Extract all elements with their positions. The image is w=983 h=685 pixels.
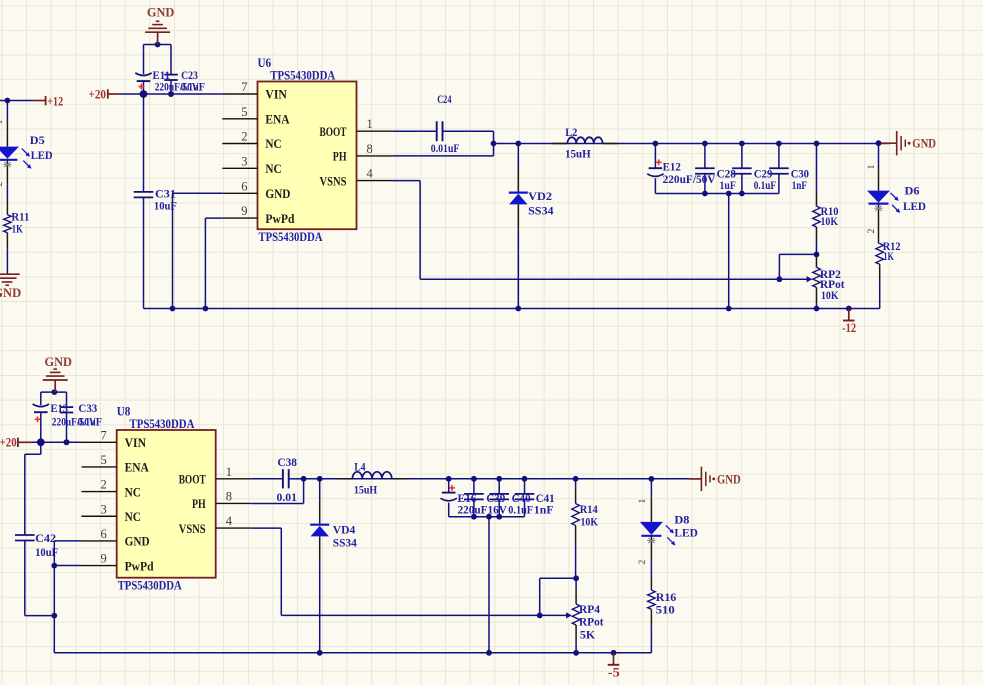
svg-text:LED: LED: [674, 525, 698, 539]
svg-text:PwPd: PwPd: [265, 212, 294, 226]
svg-text:VD2: VD2: [528, 189, 552, 203]
svg-text:7: 7: [241, 80, 247, 94]
svg-text:1nF: 1nF: [534, 502, 554, 516]
svg-text:5: 5: [241, 105, 247, 119]
svg-text:8: 8: [226, 489, 232, 503]
svg-text:D6: D6: [905, 184, 920, 198]
svg-text:PwPd: PwPd: [125, 559, 154, 573]
svg-text:+20: +20: [89, 87, 107, 101]
svg-text:6: 6: [100, 527, 106, 541]
svg-text:10uF: 10uF: [154, 198, 177, 212]
svg-text:0.01uF: 0.01uF: [431, 141, 460, 155]
svg-text:1uF: 1uF: [720, 178, 736, 192]
svg-text:NC: NC: [125, 510, 141, 524]
svg-text:0.1uF: 0.1uF: [181, 79, 206, 93]
svg-text:0.01: 0.01: [277, 490, 297, 504]
svg-text:15uH: 15uH: [565, 146, 591, 160]
svg-text:E13: E13: [51, 401, 69, 415]
svg-text:2: 2: [241, 130, 247, 144]
svg-text:BOOT: BOOT: [179, 473, 206, 487]
svg-text:9: 9: [241, 204, 247, 218]
svg-text:GND: GND: [44, 354, 72, 369]
svg-text:10K: 10K: [821, 288, 839, 302]
svg-text:VIN: VIN: [265, 88, 286, 102]
svg-text:TPS5430DDA: TPS5430DDA: [118, 579, 182, 593]
svg-text:PH: PH: [333, 150, 347, 164]
svg-text:LED: LED: [903, 199, 926, 213]
svg-text:1K: 1K: [12, 222, 23, 236]
svg-text:U6: U6: [258, 56, 272, 70]
svg-text:6: 6: [241, 179, 247, 193]
svg-text:1: 1: [226, 465, 232, 479]
svg-text:BOOT: BOOT: [320, 125, 347, 139]
svg-text:VSNS: VSNS: [179, 522, 206, 536]
svg-text:GND: GND: [125, 535, 150, 549]
svg-text:LED: LED: [31, 148, 53, 162]
svg-text:L2: L2: [565, 125, 577, 139]
svg-text:9: 9: [100, 552, 106, 566]
svg-text:1: 1: [866, 164, 877, 169]
svg-text:2: 2: [0, 181, 5, 186]
svg-text:1nF: 1nF: [792, 178, 807, 192]
svg-text:NC: NC: [265, 162, 281, 176]
svg-text:0.1uF: 0.1uF: [754, 178, 776, 192]
svg-text:1: 1: [367, 117, 373, 131]
svg-text:+12: +12: [47, 94, 63, 108]
svg-text:D8: D8: [674, 512, 689, 526]
svg-text:-5: -5: [608, 665, 620, 679]
svg-text:NC: NC: [125, 485, 141, 499]
svg-text:10K: 10K: [821, 214, 839, 228]
svg-text:3: 3: [241, 154, 247, 168]
svg-text:3: 3: [100, 502, 106, 516]
svg-text:C24: C24: [437, 92, 451, 106]
svg-text:ENA: ENA: [125, 461, 149, 475]
svg-text:1K: 1K: [883, 249, 894, 263]
svg-text:VD4: VD4: [333, 522, 356, 536]
svg-text:7: 7: [100, 428, 106, 442]
svg-text:U8: U8: [117, 405, 131, 419]
svg-text:NC: NC: [265, 137, 281, 151]
svg-text:GND: GND: [265, 187, 290, 201]
svg-text:C38: C38: [277, 455, 297, 469]
svg-text:D5: D5: [30, 133, 45, 147]
svg-text:SS34: SS34: [333, 536, 357, 550]
svg-text:TPS5430DDA: TPS5430DDA: [270, 69, 335, 83]
svg-text:510: 510: [656, 603, 675, 617]
svg-text:GND: GND: [912, 136, 936, 151]
svg-text:C33: C33: [78, 401, 97, 415]
svg-text:0.1uF: 0.1uF: [508, 502, 533, 516]
svg-text:4: 4: [226, 514, 233, 528]
svg-text:220uF16V: 220uF16V: [458, 502, 508, 516]
svg-text:1: 1: [637, 498, 648, 503]
svg-text:220uF/50V: 220uF/50V: [663, 172, 716, 186]
svg-text:1: 1: [0, 119, 5, 124]
svg-text:0.1uF: 0.1uF: [78, 414, 103, 428]
svg-text:2: 2: [100, 478, 106, 492]
svg-text:PH: PH: [192, 497, 206, 511]
svg-text:C42: C42: [35, 531, 56, 545]
svg-text:5K: 5K: [580, 628, 596, 642]
svg-text:4: 4: [367, 167, 374, 181]
svg-text:2: 2: [866, 228, 877, 233]
svg-text:+20: +20: [0, 436, 17, 450]
svg-text:VSNS: VSNS: [320, 174, 347, 188]
svg-text:VIN: VIN: [125, 436, 146, 450]
svg-text:15uH: 15uH: [354, 482, 378, 496]
svg-text:-12: -12: [842, 321, 856, 335]
svg-text:10K: 10K: [581, 514, 599, 528]
svg-text:RPot: RPot: [579, 614, 604, 628]
svg-text:GND: GND: [0, 285, 21, 300]
svg-text:ENA: ENA: [265, 113, 289, 127]
svg-text:SS34: SS34: [528, 203, 554, 217]
svg-text:2: 2: [637, 560, 648, 565]
svg-text:TPS5430DDA: TPS5430DDA: [130, 417, 195, 431]
svg-text:8: 8: [367, 142, 373, 156]
svg-text:GND: GND: [147, 5, 175, 20]
svg-text:TPS5430DDA: TPS5430DDA: [259, 230, 323, 244]
svg-text:GND: GND: [717, 471, 741, 486]
svg-text:5: 5: [100, 453, 106, 467]
svg-text:L4: L4: [354, 460, 365, 474]
